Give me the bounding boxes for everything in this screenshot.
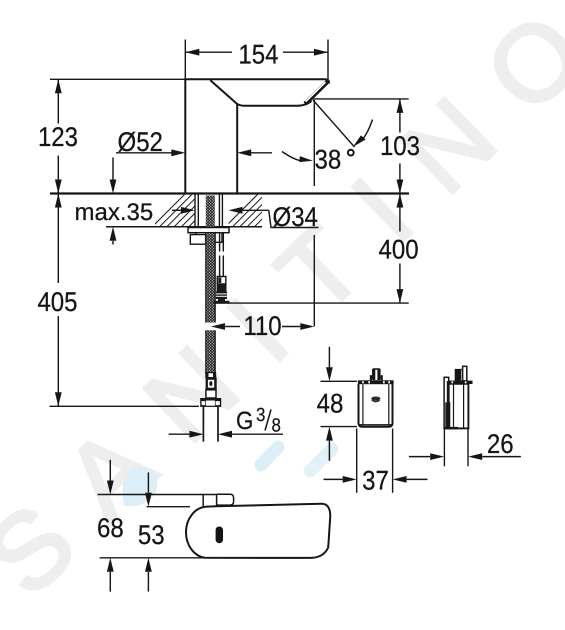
curved arrow to vertical line — [282, 152, 302, 162]
dimension 53 — [138, 472, 165, 591]
48 top reference line — [321, 380, 358, 382]
dimension 400 — [379, 194, 419, 304]
cable plug connector — [214, 277, 230, 304]
faucet body outline — [185, 79, 329, 193]
svg-text:110: 110 — [243, 311, 281, 341]
svg-text:max.35: max.35 — [75, 199, 154, 226]
svg-text:405: 405 — [37, 287, 77, 317]
sensor cable — [220, 233, 224, 277]
svg-text:68: 68 — [97, 513, 124, 543]
48 bottom reference line — [321, 426, 358, 428]
svg-text:38: 38 — [315, 144, 342, 174]
countertop deck line — [50, 192, 409, 194]
reference line at cable plug end (400 bottom) — [229, 302, 409, 304]
top reference line (68) — [98, 494, 217, 496]
mounting nut — [196, 233, 222, 243]
faucet top reference line — [50, 78, 185, 80]
side box dark strip — [445, 402, 450, 428]
bottom reference line — [100, 557, 206, 559]
control box body — [358, 380, 394, 427]
aerator plate on slanted face — [304, 80, 330, 106]
G3/8 nut — [200, 398, 221, 407]
sensor housing stub — [203, 494, 233, 506]
hose crimp sleeve — [206, 373, 216, 378]
watermark blue stroke 3 — [310, 449, 332, 471]
side box bottom thick edge — [445, 427, 459, 429]
side box mounting plate — [444, 377, 449, 428]
side box top flange bar — [448, 381, 472, 384]
53 top reference line — [147, 506, 190, 508]
dimension 154 — [185, 39, 328, 79]
dimension 68 — [97, 460, 124, 592]
405 bottom reference line — [50, 405, 200, 407]
side box connector stub — [455, 369, 468, 381]
label 38 deg — [315, 144, 354, 174]
svg-text:53: 53 — [138, 520, 165, 550]
deck bottom line — [106, 226, 262, 228]
control box top connector stub — [370, 368, 383, 380]
watermark blue drop 1 — [123, 467, 158, 506]
svg-text:123: 123 — [38, 122, 78, 152]
38 degree slanted line — [313, 100, 355, 147]
svg-text:400: 400 — [379, 234, 419, 264]
dimension 123 — [38, 79, 78, 193]
svg-text:8: 8 — [272, 415, 281, 436]
dimension G 3/8 — [169, 405, 283, 438]
connector neck — [206, 390, 216, 398]
braided supply hose — [206, 233, 215, 374]
svg-text:103: 103 — [380, 131, 420, 161]
hose connector body with window — [206, 377, 217, 389]
sensor window dark capsule — [216, 527, 223, 544]
faucet shank through deck — [195, 195, 222, 228]
mounting washer — [188, 228, 229, 233]
deck hatch left — [147, 190, 247, 232]
thread stub lines — [202, 407, 204, 442]
grohe logo mark on box — [371, 397, 380, 402]
svg-text:3: 3 — [256, 405, 265, 426]
svg-text:48: 48 — [317, 389, 344, 419]
deck hatch right — [220, 190, 313, 232]
side box body — [449, 384, 469, 429]
svg-text:G: G — [236, 407, 253, 435]
label D52 with leader arrows — [116, 127, 272, 157]
watermark blue stroke 2 — [261, 447, 278, 465]
faucet body side profile — [186, 504, 330, 558]
dimension 110 — [211, 311, 314, 341]
dimension 37 — [324, 429, 428, 496]
dimension 103 — [380, 99, 420, 194]
svg-text:26: 26 — [487, 429, 514, 459]
svg-text:154: 154 — [238, 39, 278, 69]
38 degree construction: horizontal line from spout tip — [313, 98, 409, 100]
threaded section texture — [206, 196, 215, 228]
svg-text:37: 37 — [362, 465, 389, 495]
vertical projection line from spout tip — [313, 100, 315, 186]
svg-text:Ø34: Ø34 — [273, 202, 318, 232]
dimension 26 — [409, 429, 521, 467]
nut side tab — [190, 235, 206, 245]
dimension max.35 — [75, 158, 154, 245]
dimension 48 — [317, 347, 344, 461]
dimension 405 — [37, 194, 77, 407]
curved arrow to slanted line — [361, 120, 373, 142]
dimension D34 with leader — [172, 202, 319, 232]
